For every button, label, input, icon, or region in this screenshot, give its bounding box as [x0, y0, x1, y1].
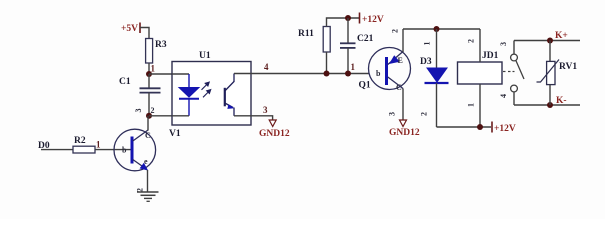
svg-text:2: 2: [420, 112, 429, 116]
svg-text:4: 4: [499, 94, 508, 98]
svg-text:e: e: [144, 157, 148, 166]
ground GND12 (left): [259, 120, 290, 139]
varistor RV1: [537, 41, 578, 106]
wire U1 pin 2: [149, 115, 189, 117]
svg-text:2: 2: [391, 29, 400, 33]
relay contact pin 4: [499, 85, 517, 105]
wire K+ rail: [514, 40, 580, 42]
power +5V: [121, 23, 140, 35]
svg-text:R3: R3: [155, 40, 167, 50]
svg-text:b: b: [122, 146, 127, 155]
svg-text:R2: R2: [74, 136, 86, 146]
node 1 junction: [146, 64, 156, 78]
wire R11 bottom: [326, 52, 328, 74]
relay coil JD1: [458, 29, 503, 127]
svg-text:3: 3: [134, 109, 143, 113]
power +12V (bottom): [492, 122, 516, 135]
svg-text:+12V: +12V: [494, 124, 516, 134]
svg-text:JD1: JD1: [482, 51, 499, 61]
svg-text:1: 1: [151, 64, 156, 74]
linkage dashes coil to arm: [503, 71, 515, 73]
node 2 junction: [146, 113, 152, 119]
svg-text:2: 2: [467, 39, 476, 43]
ground earth (V1 emitter): [137, 192, 159, 201]
node R11 on rail: [324, 71, 330, 77]
node C21 on rail: [345, 71, 351, 77]
svg-text:D3: D3: [420, 57, 432, 67]
wire U1 pin 4 to Q1 base: [251, 73, 370, 75]
light arrows inside U1: [202, 82, 211, 97]
node D3 top: [434, 26, 440, 32]
svg-text:1: 1: [96, 140, 101, 150]
svg-text:RV1: RV1: [559, 62, 577, 72]
svg-text:R11: R11: [298, 29, 314, 39]
optocoupler U1 box: [172, 51, 251, 125]
node at C21 top: [345, 15, 351, 21]
wire V1 collector to node 2: [147, 116, 149, 131]
wire R3 to node 1: [148, 63, 150, 74]
svg-text:1: 1: [467, 103, 476, 107]
wire +12V bottom rail: [437, 126, 492, 128]
wire Q1 emitter to top rail: [402, 29, 404, 52]
svg-text:U1: U1: [199, 51, 211, 61]
svg-text:C: C: [396, 83, 402, 92]
diode D3: [420, 29, 449, 127]
svg-text:3: 3: [499, 42, 508, 46]
ground GND12 (right): [389, 120, 420, 138]
svg-text:K-: K-: [556, 96, 567, 106]
svg-text:C21: C21: [357, 34, 374, 44]
transistor Q1: [369, 48, 411, 93]
wire R2 to V1 base: [95, 149, 131, 151]
wire K- rail: [514, 104, 580, 106]
wire V1 emitter to ground: [147, 170, 149, 192]
node RV1 top: [547, 38, 553, 44]
svg-text:4: 4: [264, 62, 269, 72]
phototransistor inside U1: [225, 74, 251, 116]
svg-text:+12V: +12V: [362, 15, 384, 25]
svg-text:2: 2: [151, 106, 155, 115]
wire +5V to R3: [140, 28, 149, 39]
svg-text:K+: K+: [555, 31, 568, 41]
resistor R11: [298, 27, 330, 53]
wire R11 top to +12V rail: [327, 18, 360, 27]
svg-text:GND12: GND12: [389, 128, 420, 138]
node RV1 bottom: [547, 102, 553, 108]
svg-text:E: E: [398, 56, 403, 65]
svg-text:1: 1: [351, 62, 356, 72]
capacitor C1: [119, 74, 161, 116]
svg-text:V1: V1: [169, 129, 181, 139]
svg-text:Q1: Q1: [359, 81, 371, 91]
svg-text:1: 1: [423, 42, 432, 46]
wire D0 to R2: [41, 149, 73, 151]
svg-text:GND12: GND12: [259, 129, 290, 139]
svg-text:b: b: [376, 69, 381, 78]
svg-text:+5V: +5V: [121, 24, 138, 34]
LED inside U1: [172, 74, 199, 116]
relay contact pin 3: [499, 41, 517, 61]
capacitor C21: [340, 18, 374, 74]
svg-text:3: 3: [263, 105, 268, 115]
wire Q1 collector down: [402, 89, 404, 121]
svg-text:C: C: [145, 131, 151, 140]
resistor R3: [146, 39, 167, 64]
svg-text:C1: C1: [119, 77, 131, 87]
relay contact arm: [516, 61, 524, 79]
svg-text:3: 3: [388, 112, 397, 116]
resistor R2: [73, 136, 95, 153]
wire top rail: [403, 28, 480, 30]
wire U1 pin 1: [149, 73, 189, 75]
transistor V1: [114, 129, 156, 171]
node relay pin on +12V rail: [477, 124, 483, 130]
wire U1 pin 3 to ground: [251, 116, 273, 120]
power +12V (top): [360, 13, 384, 26]
